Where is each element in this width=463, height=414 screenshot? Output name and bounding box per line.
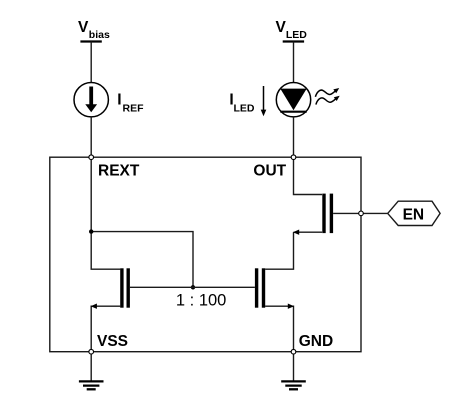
- supply terminal bar V_LED: [283, 40, 304, 42]
- svg-text:1 : 100: 1 : 100: [176, 292, 226, 310]
- LED light emission arrow (lower): [316, 96, 340, 105]
- supply label V_bias: [78, 19, 110, 41]
- transistor M3 channel bar: [322, 194, 325, 234]
- wire: current source to REXT port: [90, 117, 92, 157]
- svg-text:EN: EN: [403, 207, 425, 224]
- EN input symbol (hexagon): [388, 201, 440, 225]
- wire: M3 gate to EN symbol: [333, 212, 388, 214]
- ground symbol (VSS): [79, 381, 104, 389]
- svg-text:REXT: REXT: [98, 163, 140, 180]
- wire: V_bias bar to current source: [90, 42, 92, 83]
- port OUT (open circle): [291, 155, 296, 160]
- supply label V_LED: [276, 19, 308, 41]
- svg-text:V: V: [276, 19, 287, 36]
- transistor M2 gate bar: [255, 268, 258, 307]
- current source I_REF: [74, 83, 108, 117]
- transistor M1 channel bar: [120, 268, 123, 307]
- svg-text:GND: GND: [299, 333, 333, 350]
- wire: LED to OUT port: [293, 117, 295, 157]
- svg-text:REF: REF: [123, 103, 145, 115]
- svg-text:LED: LED: [234, 103, 255, 115]
- wire: GND port to ground: [293, 354, 295, 381]
- svg-text:VSS: VSS: [97, 333, 128, 350]
- wire: M3 source to M2 drain (with source arrow): [294, 231, 323, 233]
- port REXT (open circle): [89, 155, 94, 160]
- port VSS (open circle): [89, 349, 94, 354]
- arrow: M1 source: [91, 304, 97, 309]
- wire: M2 source to GND port (with source arrow): [265, 306, 293, 352]
- wire: OUT port to M3 drain: [294, 157, 323, 194]
- svg-text:bias: bias: [89, 29, 110, 41]
- junction node: REXT/gate tie: [89, 229, 93, 233]
- LED D1: [276, 83, 310, 117]
- arrow: M3 source: [293, 230, 299, 235]
- transistor M2 channel bar: [262, 268, 265, 307]
- label I_LED: [229, 92, 255, 115]
- wire: M1 source to VSS port (with source arrow): [91, 306, 120, 352]
- svg-text:OUT: OUT: [253, 163, 286, 180]
- svg-text:LED: LED: [286, 29, 307, 41]
- wire: VSS port to ground: [90, 354, 92, 381]
- supply terminal bar V_bias: [80, 40, 101, 42]
- transistor M1 gate bar: [126, 268, 129, 307]
- LED light emission arrow (upper): [315, 88, 339, 97]
- ground symbol (GND): [281, 381, 306, 389]
- port EN (open circle): [359, 211, 364, 216]
- wire: V_LED bar to LED: [293, 42, 295, 83]
- arrow: I_LED current direction: [261, 86, 267, 116]
- svg-text:V: V: [78, 19, 89, 36]
- wire: M2 drain up to M3 source: [265, 232, 293, 269]
- junction node: gate rail: [191, 285, 195, 289]
- transistor M3 gate bar: [330, 194, 333, 234]
- svg-text:I: I: [117, 92, 121, 109]
- port GND (open circle): [291, 349, 296, 354]
- arrow: M2 source: [288, 304, 294, 309]
- IC boundary box: [50, 157, 361, 352]
- wire: gate rail M1 to M2: [130, 286, 255, 288]
- wire: gate-tie branch (node to gate rail): [91, 232, 193, 288]
- label I_REF: [117, 92, 144, 115]
- wire: REXT port down to M1 drain: [91, 157, 120, 269]
